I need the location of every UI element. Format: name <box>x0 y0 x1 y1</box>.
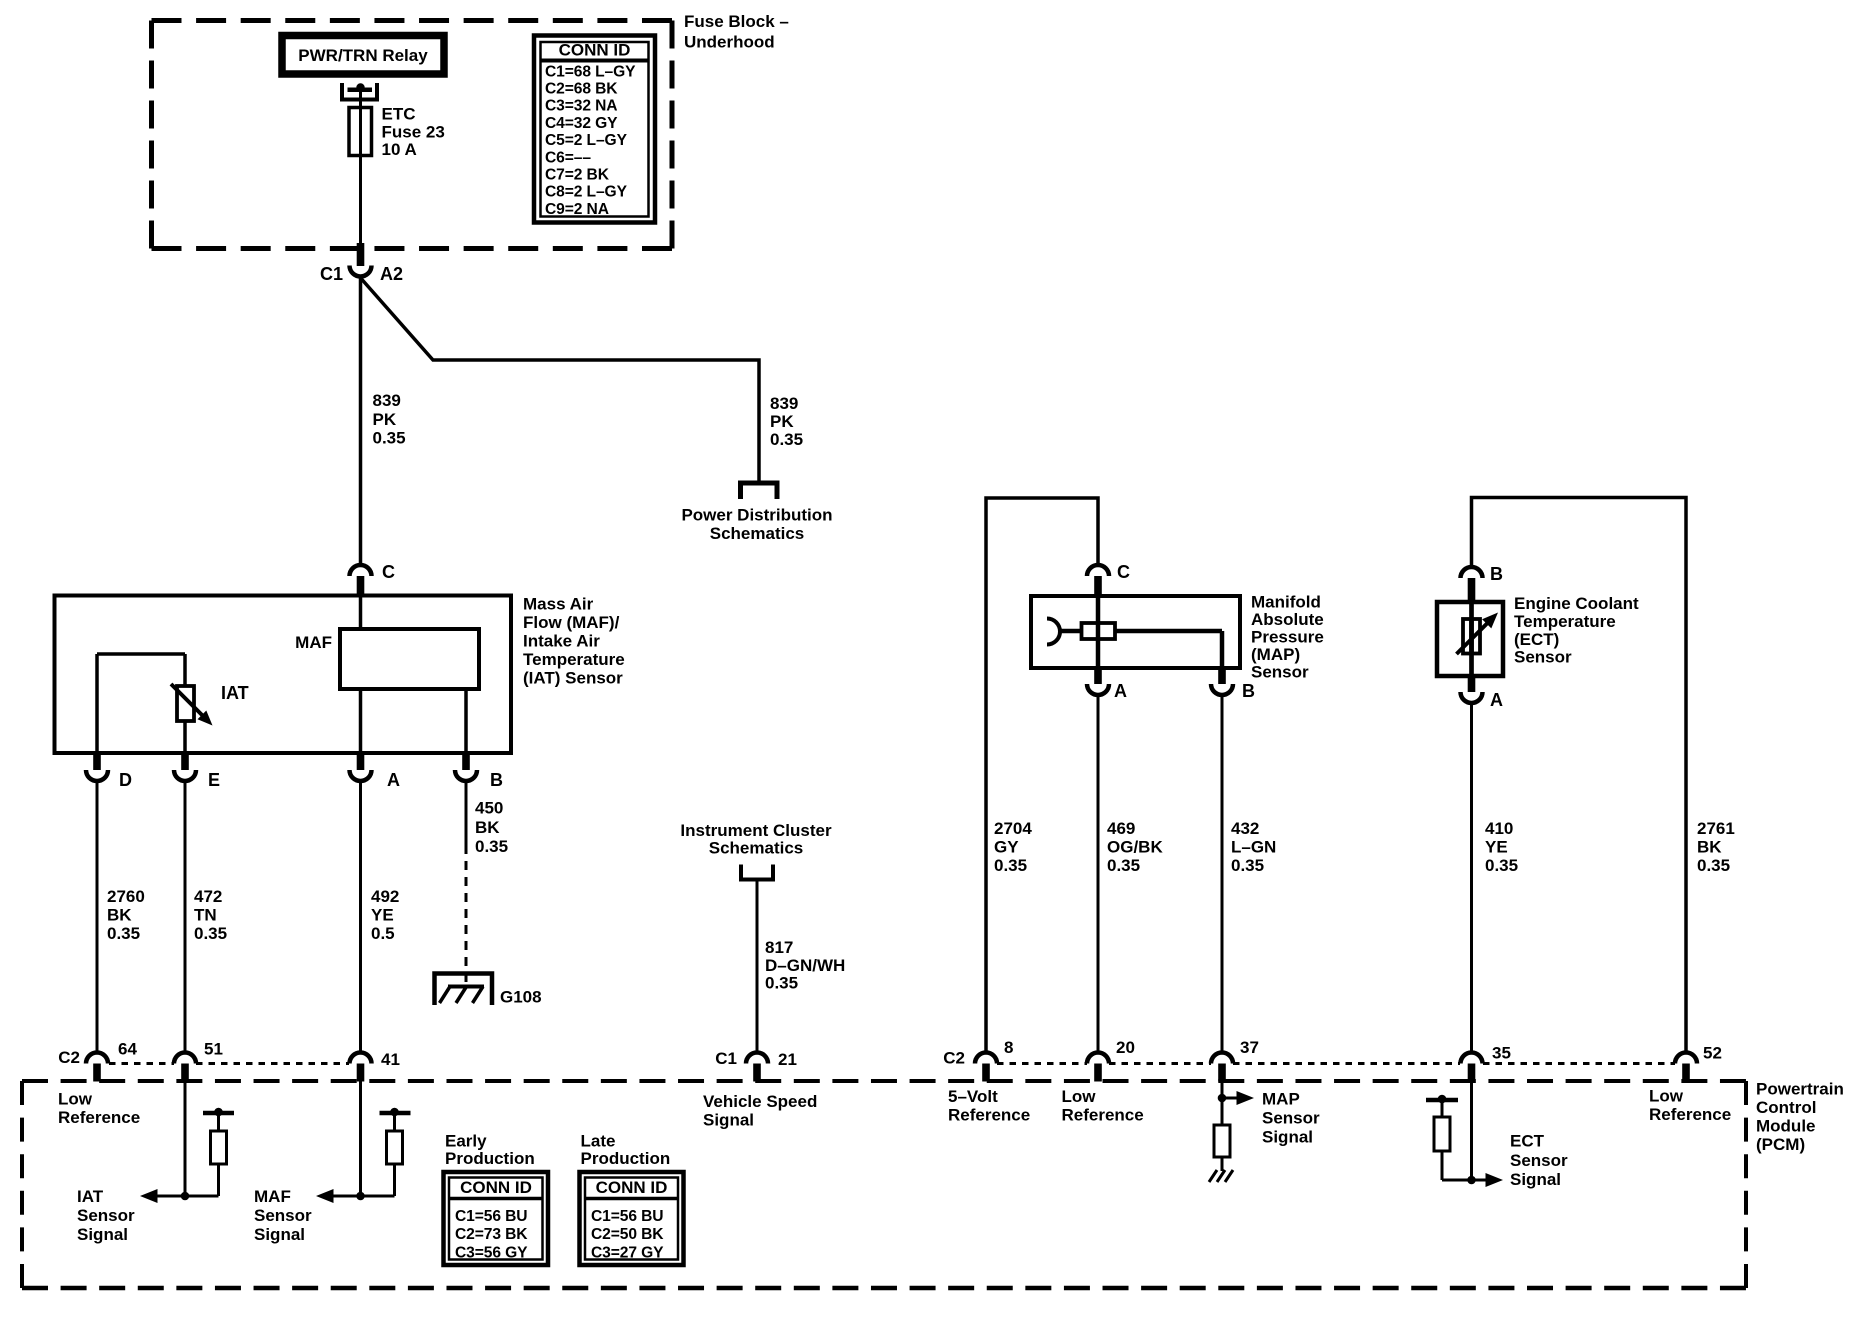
PCM label: 5-Volt Reference <box>948 1087 1030 1125</box>
svg-text:ETC: ETC <box>382 105 416 124</box>
svg-text:10 A: 10 A <box>382 140 417 159</box>
svg-text:Production: Production <box>581 1149 671 1168</box>
svg-text:B: B <box>490 770 503 790</box>
svg-text:410: 410 <box>1485 819 1513 838</box>
svg-text:C3=32 NA: C3=32 NA <box>545 98 617 115</box>
svg-text:C7=2 BK: C7=2 BK <box>545 167 610 184</box>
svg-text:Power Distribution: Power Distribution <box>681 506 832 525</box>
svg-text:A: A <box>1114 681 1127 701</box>
svg-text:GY: GY <box>994 838 1019 857</box>
svg-text:A: A <box>1490 690 1503 710</box>
svg-text:Reference: Reference <box>948 1106 1030 1125</box>
svg-text:C1: C1 <box>320 264 343 284</box>
PCM ECT pull-up and signal arrow <box>1426 1081 1568 1189</box>
svg-text:Mass Air: Mass Air <box>523 595 594 614</box>
PCM pin 52 <box>1675 1044 1722 1082</box>
svg-text:C2: C2 <box>943 1049 965 1068</box>
svg-text:Pressure: Pressure <box>1251 628 1324 647</box>
PCM label: Low Reference (pin 64) <box>58 1090 140 1128</box>
svg-text:469: 469 <box>1107 819 1135 838</box>
svg-text:0.35: 0.35 <box>373 429 406 448</box>
PCM label: Low Reference (pin 20) <box>1062 1087 1144 1125</box>
PCM label: Low Reference (pin 52) <box>1649 1087 1731 1125</box>
svg-text:E: E <box>208 770 220 790</box>
ECT low-ref loop wire <box>1472 498 1687 1053</box>
svg-text:C2=50 BK: C2=50 BK <box>591 1226 664 1243</box>
PCM pin 8 (C2) <box>943 1038 1013 1082</box>
svg-text:(MAP): (MAP) <box>1251 645 1300 664</box>
wire 839 PK main vertical <box>361 277 406 566</box>
svg-text:20: 20 <box>1116 1038 1135 1057</box>
IAT thermistor <box>97 654 249 753</box>
MAF/IAT sensor box <box>55 595 625 754</box>
PCM label: Vehicle Speed Signal <box>703 1092 817 1130</box>
svg-text:Control: Control <box>1756 1098 1816 1117</box>
svg-text:2761: 2761 <box>1697 819 1735 838</box>
connector pin B (MAP) <box>1211 668 1255 701</box>
svg-text:Module: Module <box>1756 1117 1816 1136</box>
svg-text:C1=56 BU: C1=56 BU <box>591 1208 663 1225</box>
PCM pin 20 <box>1087 1038 1135 1082</box>
PCM pin 21 (C1) <box>715 1049 797 1082</box>
wire 469 OG/BK (MAP A to PCM 20) <box>1098 695 1163 1053</box>
svg-text:(IAT) Sensor: (IAT) Sensor <box>523 669 623 688</box>
wire 472 TN (pin E to PCM 51) <box>185 781 227 1053</box>
svg-text:CONN ID: CONN ID <box>559 41 631 60</box>
connector C1/A2 <box>320 243 403 284</box>
svg-text:C1: C1 <box>715 1049 737 1068</box>
svg-text:C8=2 L–GY: C8=2 L–GY <box>545 184 628 201</box>
svg-text:C4=32 GY: C4=32 GY <box>545 115 618 132</box>
svg-text:C2: C2 <box>58 1048 80 1067</box>
connector pins D E A B (MAF box bottom) <box>86 753 132 790</box>
svg-text:C3=56 GY: C3=56 GY <box>455 1245 528 1262</box>
svg-text:C6=––: C6=–– <box>545 149 591 166</box>
wire 432 L-GN (MAP B to PCM 37) <box>1222 695 1276 1053</box>
svg-text:B: B <box>1490 564 1503 584</box>
connector pin A (ECT) <box>1461 676 1504 710</box>
MAP sensor box <box>1031 593 1324 682</box>
svg-text:C: C <box>382 562 395 582</box>
svg-text:(PCM): (PCM) <box>1756 1135 1805 1154</box>
connector pin B (ECT) <box>1461 564 1504 602</box>
svg-text:BK: BK <box>1697 838 1722 857</box>
svg-text:0.5: 0.5 <box>371 924 395 943</box>
svg-text:Reference: Reference <box>58 1108 140 1127</box>
svg-text:0.35: 0.35 <box>1485 856 1518 875</box>
svg-text:A: A <box>387 770 400 790</box>
svg-text:C2=68 BK: C2=68 BK <box>545 81 618 98</box>
svg-text:G108: G108 <box>500 988 542 1007</box>
svg-text:Intake Air: Intake Air <box>523 632 600 651</box>
svg-text:432: 432 <box>1231 819 1259 838</box>
svg-text:L–GN: L–GN <box>1231 838 1276 857</box>
svg-text:BK: BK <box>475 818 500 837</box>
wire 450 BK (pin B to ground G108) <box>466 781 508 986</box>
svg-text:CONN ID: CONN ID <box>596 1178 668 1197</box>
svg-text:0.35: 0.35 <box>1107 856 1140 875</box>
svg-text:839: 839 <box>770 394 798 413</box>
svg-text:0.35: 0.35 <box>765 974 798 993</box>
connector pin C (MAP) <box>1087 562 1130 596</box>
svg-text:YE: YE <box>1485 838 1508 857</box>
svg-text:Sensor: Sensor <box>1510 1151 1568 1170</box>
svg-text:Signal: Signal <box>1262 1128 1313 1147</box>
svg-text:ECT: ECT <box>1510 1132 1545 1151</box>
connector pin A (MAP) <box>1087 668 1127 701</box>
svg-text:Flow (MAF)/: Flow (MAF)/ <box>523 613 620 632</box>
relay K: PWR/TRN Relay box <box>282 36 444 75</box>
svg-text:Fuse 23: Fuse 23 <box>382 123 445 142</box>
svg-text:Manifold: Manifold <box>1251 593 1321 612</box>
PCM pin 37 <box>1211 1038 1259 1082</box>
svg-text:Underhood: Underhood <box>684 33 775 52</box>
wire 2704 GY (PCM 8, 5-volt ref) label <box>994 819 1032 875</box>
off-page connector: Instrument Cluster Schematics <box>680 821 832 880</box>
svg-text:Sensor: Sensor <box>254 1206 312 1225</box>
svg-text:64: 64 <box>118 1040 137 1059</box>
svg-text:52: 52 <box>1703 1044 1722 1063</box>
svg-text:C9=2 NA: C9=2 NA <box>545 201 609 218</box>
svg-text:C1=68 L–GY: C1=68 L–GY <box>545 63 636 80</box>
MAF element <box>295 596 479 753</box>
svg-text:0.35: 0.35 <box>107 924 140 943</box>
PCM pin 35 <box>1461 1044 1511 1082</box>
svg-text:MAF: MAF <box>254 1187 291 1206</box>
svg-text:Reference: Reference <box>1649 1105 1731 1124</box>
svg-text:839: 839 <box>373 391 401 410</box>
svg-text:(ECT): (ECT) <box>1514 630 1559 649</box>
svg-text:0.35: 0.35 <box>770 430 803 449</box>
svg-text:A2: A2 <box>380 264 403 284</box>
svg-text:Temperature: Temperature <box>523 650 625 669</box>
fuse block underhood dashed box <box>152 21 673 249</box>
svg-text:BK: BK <box>107 906 132 925</box>
svg-text:Production: Production <box>445 1149 535 1168</box>
relay contact terminal symbol <box>342 83 377 100</box>
fuse F23 ETC 10A <box>349 105 445 160</box>
svg-text:Signal: Signal <box>77 1225 128 1244</box>
svg-text:0.35: 0.35 <box>994 856 1027 875</box>
svg-text:C2=73 BK: C2=73 BK <box>455 1226 528 1243</box>
svg-text:Signal: Signal <box>254 1225 305 1244</box>
svg-text:Signal: Signal <box>1510 1170 1561 1189</box>
svg-text:C1=56 BU: C1=56 BU <box>455 1208 527 1225</box>
svg-text:PK: PK <box>770 412 794 431</box>
PCM MAP signal arrow, resistor and ground <box>1209 1081 1320 1182</box>
svg-text:CONN ID: CONN ID <box>460 1178 532 1197</box>
svg-text:51: 51 <box>204 1040 223 1059</box>
ground G108 <box>435 974 542 1007</box>
svg-text:MAF: MAF <box>295 633 332 652</box>
svg-text:C: C <box>1117 562 1130 582</box>
svg-text:YE: YE <box>371 906 394 925</box>
wire 817 D-GN/WH (to PCM 21) <box>757 882 845 1053</box>
connector pin C (MAF) <box>350 562 396 596</box>
svg-text:Sensor: Sensor <box>1251 663 1309 682</box>
svg-text:5–Volt: 5–Volt <box>948 1087 998 1106</box>
svg-text:MAP: MAP <box>1262 1090 1300 1109</box>
svg-text:PWR/TRN Relay: PWR/TRN Relay <box>298 46 428 65</box>
PCM pin 41 <box>350 1050 400 1082</box>
off-page connector: Power Distribution Schematics <box>681 483 832 543</box>
svg-text:Sensor: Sensor <box>1514 648 1572 667</box>
wire 839 PK branch to power distribution <box>362 279 804 481</box>
svg-text:472: 472 <box>194 887 222 906</box>
svg-text:C3=27 GY: C3=27 GY <box>591 1245 664 1262</box>
svg-text:Powertrain: Powertrain <box>1756 1080 1844 1099</box>
svg-text:TN: TN <box>194 906 217 925</box>
PCM pin 64 (C2) <box>58 1040 137 1082</box>
svg-text:D: D <box>119 770 132 790</box>
svg-text:Early: Early <box>445 1132 487 1151</box>
svg-text:0.35: 0.35 <box>475 837 508 856</box>
svg-text:OG/BK: OG/BK <box>1107 838 1163 857</box>
Late Production CONN ID table <box>580 1132 684 1266</box>
ECT sensor box <box>1437 594 1639 676</box>
svg-text:Signal: Signal <box>703 1111 754 1130</box>
svg-text:817: 817 <box>765 938 793 957</box>
svg-text:Schematics: Schematics <box>709 839 804 858</box>
svg-text:Low: Low <box>1649 1087 1684 1106</box>
svg-text:Instrument Cluster: Instrument Cluster <box>680 821 832 840</box>
Early Production CONN ID table <box>444 1132 549 1266</box>
svg-text:Sensor: Sensor <box>1262 1109 1320 1128</box>
svg-text:21: 21 <box>778 1050 797 1069</box>
svg-text:D–GN/WH: D–GN/WH <box>765 956 845 975</box>
svg-text:450: 450 <box>475 799 503 818</box>
ECT thermistor element <box>1457 602 1499 676</box>
svg-text:35: 35 <box>1492 1044 1511 1063</box>
CONN ID table (fuse block) <box>534 36 655 223</box>
svg-text:Vehicle Speed: Vehicle Speed <box>703 1092 817 1111</box>
wire 492 YE (pin A to PCM 41) <box>361 781 400 1053</box>
svg-text:0.35: 0.35 <box>1697 856 1730 875</box>
svg-text:Temperature: Temperature <box>1514 612 1616 631</box>
PCM pin 51 <box>174 1040 223 1082</box>
svg-text:37: 37 <box>1240 1038 1259 1057</box>
svg-text:Late: Late <box>581 1132 616 1151</box>
svg-text:Low: Low <box>58 1090 93 1109</box>
svg-text:PK: PK <box>373 410 397 429</box>
svg-text:Engine Coolant: Engine Coolant <box>1514 594 1639 613</box>
svg-text:2704: 2704 <box>994 819 1032 838</box>
PCM connector dotted lines <box>109 1062 1675 1065</box>
svg-text:Low: Low <box>1062 1087 1097 1106</box>
PCM MAF pull-up and signal arrow <box>254 1081 411 1244</box>
svg-text:B: B <box>1242 681 1255 701</box>
wire 2760 BK (pin D to PCM 64) <box>97 781 145 1053</box>
svg-text:0.35: 0.35 <box>1231 856 1264 875</box>
wire 410 YE (ECT A to PCM 35) <box>1472 703 1519 1053</box>
svg-text:Fuse Block –: Fuse Block – <box>684 12 789 31</box>
svg-text:492: 492 <box>371 887 399 906</box>
MAP sensor 5V loop wire <box>986 498 1098 1053</box>
svg-text:Schematics: Schematics <box>710 524 805 543</box>
wire from relay through fuse to fuse block edge <box>359 89 362 246</box>
wire 2761 BK (PCM 52 low ref) label <box>1697 819 1735 875</box>
MAP transducer element <box>1047 596 1222 668</box>
PCM IAT pull-up and signal arrow <box>77 1081 234 1244</box>
svg-text:Sensor: Sensor <box>77 1206 135 1225</box>
svg-text:Reference: Reference <box>1062 1106 1144 1125</box>
svg-text:8: 8 <box>1004 1038 1013 1057</box>
svg-text:C5=2 L–GY: C5=2 L–GY <box>545 132 628 149</box>
svg-text:2760: 2760 <box>107 887 145 906</box>
PCM dashed box <box>22 1080 1844 1289</box>
svg-text:IAT: IAT <box>77 1187 104 1206</box>
svg-text:Absolute: Absolute <box>1251 610 1324 629</box>
svg-text:0.35: 0.35 <box>194 924 227 943</box>
svg-text:41: 41 <box>381 1050 400 1069</box>
label: Fuse Block - Underhood <box>684 12 789 52</box>
svg-text:IAT: IAT <box>221 683 249 703</box>
